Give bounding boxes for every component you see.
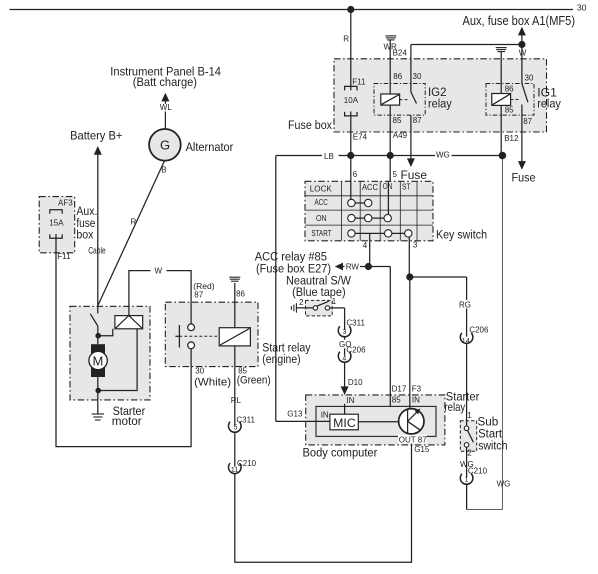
svg-text:86: 86 <box>236 290 245 299</box>
svg-text:6: 6 <box>353 170 358 179</box>
svg-text:R: R <box>131 217 137 226</box>
svg-text:R: R <box>343 35 349 44</box>
svg-text:LB: LB <box>324 152 334 161</box>
svg-text:30: 30 <box>525 73 534 82</box>
svg-text:RW: RW <box>346 263 360 272</box>
svg-text:switch: switch <box>478 439 507 453</box>
svg-text:1: 1 <box>465 476 469 483</box>
svg-text:WL: WL <box>160 103 173 112</box>
svg-text:MIC: MIC <box>333 416 356 430</box>
svg-text:C206: C206 <box>346 346 366 355</box>
svg-text:LOCK: LOCK <box>310 184 333 193</box>
svg-text:(engine): (engine) <box>262 352 300 366</box>
svg-text:3: 3 <box>413 240 418 249</box>
svg-text:ON: ON <box>383 182 393 191</box>
svg-text:IN: IN <box>321 411 329 420</box>
svg-text:85: 85 <box>392 396 401 405</box>
svg-text:11: 11 <box>231 467 238 474</box>
svg-text:30: 30 <box>413 72 422 81</box>
svg-text:W: W <box>155 266 163 275</box>
svg-text:WG: WG <box>460 460 474 469</box>
svg-text:WG: WG <box>436 150 450 159</box>
svg-text:W: W <box>519 49 527 58</box>
svg-text:(Batt charge): (Batt charge) <box>133 75 197 89</box>
svg-text:5: 5 <box>393 170 398 179</box>
svg-text:Fuse: Fuse <box>512 171 536 185</box>
svg-text:(Blue tape): (Blue tape) <box>292 285 346 299</box>
svg-text:relay: relay <box>428 97 453 111</box>
svg-text:(Green): (Green) <box>237 374 271 386</box>
svg-text:F3: F3 <box>412 385 422 394</box>
svg-text:OUT 87: OUT 87 <box>399 435 427 444</box>
svg-text:motor: motor <box>112 414 142 428</box>
svg-text:D17: D17 <box>392 384 407 393</box>
svg-text:AF3: AF3 <box>58 199 73 208</box>
svg-text:box: box <box>76 228 93 242</box>
svg-text:2: 2 <box>299 298 304 307</box>
svg-text:30: 30 <box>577 3 587 13</box>
svg-text:M: M <box>93 353 104 368</box>
svg-text:B: B <box>161 166 166 175</box>
svg-text:G15: G15 <box>414 445 430 454</box>
svg-text:C311: C311 <box>236 416 255 425</box>
svg-text:3: 3 <box>343 329 347 336</box>
svg-text:15A: 15A <box>49 218 64 227</box>
svg-text:2: 2 <box>467 449 472 458</box>
svg-text:D10: D10 <box>348 378 363 387</box>
svg-text:Aux, fuse box A1(MF5): Aux, fuse box A1(MF5) <box>463 13 576 28</box>
svg-text:IN: IN <box>346 396 354 405</box>
svg-text:86: 86 <box>505 85 514 94</box>
svg-text:4: 4 <box>342 355 346 362</box>
svg-text:B24: B24 <box>393 48 408 57</box>
svg-text:30: 30 <box>195 366 204 375</box>
svg-text:ACC: ACC <box>362 183 378 192</box>
svg-text:Alternator: Alternator <box>186 140 234 154</box>
svg-text:F11: F11 <box>352 77 366 86</box>
svg-text:Battery B+: Battery B+ <box>70 129 122 143</box>
svg-text:85: 85 <box>505 105 514 114</box>
svg-text:C206: C206 <box>469 325 489 334</box>
svg-text:87: 87 <box>194 290 203 299</box>
svg-text:Fuse box: Fuse box <box>288 118 332 132</box>
svg-text:Key switch: Key switch <box>436 228 487 242</box>
svg-text:Body computer: Body computer <box>303 446 378 460</box>
svg-text:G13: G13 <box>287 410 303 419</box>
svg-text:Fuse: Fuse <box>401 168 428 182</box>
svg-text:ST: ST <box>402 183 411 192</box>
svg-text:4: 4 <box>363 241 368 250</box>
svg-text:87: 87 <box>413 116 422 125</box>
svg-text:ACC: ACC <box>314 198 328 207</box>
svg-text:14: 14 <box>462 338 470 345</box>
svg-text:C210: C210 <box>237 459 257 468</box>
svg-text:RL: RL <box>231 396 242 405</box>
svg-text:RG: RG <box>459 300 471 309</box>
svg-text:87: 87 <box>523 117 532 126</box>
svg-text:5: 5 <box>234 425 238 432</box>
svg-text:G: G <box>160 138 170 153</box>
svg-text:ON: ON <box>316 214 327 223</box>
svg-text:86: 86 <box>393 72 402 81</box>
svg-text:10A: 10A <box>344 96 359 105</box>
svg-text:E74: E74 <box>353 133 368 142</box>
svg-text:C311: C311 <box>346 319 365 328</box>
svg-text:START: START <box>311 229 331 238</box>
svg-text:WG: WG <box>497 480 511 489</box>
svg-text:F11: F11 <box>57 252 71 261</box>
svg-text:relay: relay <box>445 400 466 414</box>
svg-text:B12: B12 <box>504 134 519 143</box>
svg-text:A49: A49 <box>393 131 408 140</box>
svg-text:(White): (White) <box>194 376 231 388</box>
svg-text:Cable: Cable <box>88 246 106 256</box>
svg-text:relay: relay <box>537 97 562 111</box>
svg-text:85: 85 <box>393 116 402 125</box>
svg-text:IN: IN <box>412 396 420 405</box>
svg-text:1: 1 <box>467 411 472 420</box>
